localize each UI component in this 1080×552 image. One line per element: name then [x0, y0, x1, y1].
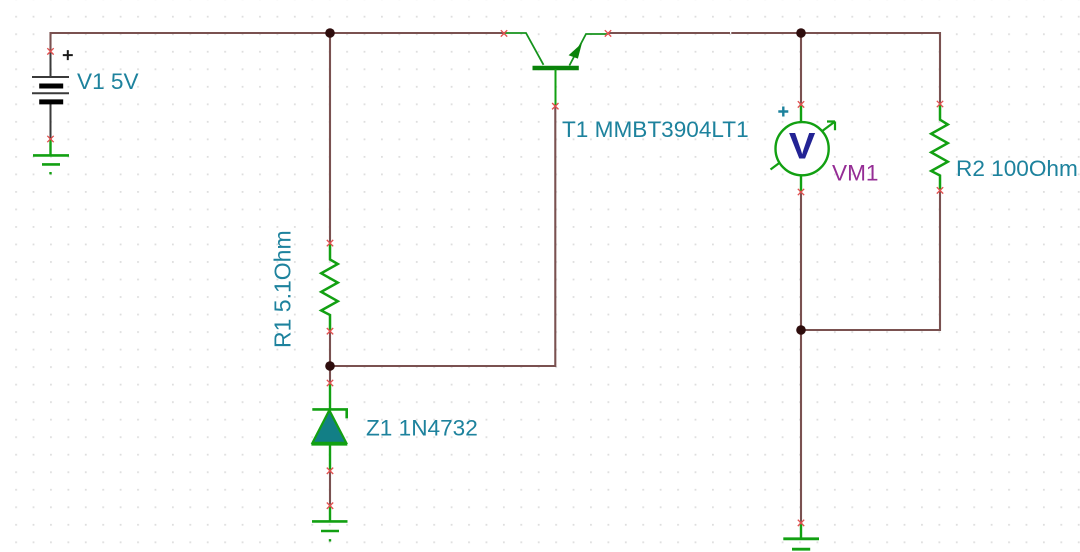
junction node on rail at R1 tap: [325, 28, 335, 38]
pin marker ground pin below Z1: [327, 503, 333, 509]
wire: transistor base down and left to R1/Z1 junction: [330, 106, 555, 366]
svg-text:VM1: VM1: [832, 161, 878, 186]
svg-text:V: V: [789, 126, 816, 167]
pin marker Z1 anode: [327, 468, 333, 474]
junction node on rail at voltmeter tap: [796, 28, 806, 38]
battery V1: [32, 51, 69, 139]
wire: rail tap down to R1: [329, 33, 331, 243]
junction node R1/Z1/base: [325, 361, 335, 371]
pin marker R2 bottom: [937, 187, 943, 193]
pin marker R1 bottom: [327, 328, 333, 334]
battery plus sign: [63, 50, 73, 60]
wire: rail junction down to voltmeter: [800, 33, 802, 104]
pin marker VM1 top: [798, 101, 804, 107]
zener diode Z1: [311, 383, 347, 470]
voltmeter VM1: [771, 104, 836, 192]
svg-text:T1 MMBT3904LT1: T1 MMBT3904LT1: [562, 117, 749, 142]
ground under battery: [33, 139, 69, 174]
transistor T1: [504, 33, 608, 106]
voltmeter plus sign: [778, 107, 788, 117]
pin marker Z1 cathode: [327, 380, 333, 386]
svg-text:V1 5V: V1 5V: [77, 69, 139, 94]
svg-text:R1 5.1Ohm: R1 5.1Ohm: [270, 230, 296, 348]
pin marker ground pin below VM1: [798, 520, 804, 526]
wire: lower junction down to ground: [800, 330, 802, 523]
wire: R1 bottom to junction to Z1 top: [329, 331, 331, 383]
wire: Z1 anode to ground pin: [329, 470, 331, 505]
resistor R1: [321, 244, 338, 331]
pin marker T1 emitter: [605, 30, 611, 36]
ground under voltmeter: [783, 523, 819, 550]
pin marker VM1 bottom: [798, 189, 804, 195]
wire: lower junction right and up to R2 bottom: [801, 190, 940, 330]
wire: battery top to transistor collector rail: [51, 33, 505, 51]
pin marker T1 base: [552, 103, 558, 109]
wire: voltmeter bottom down to lower junction: [800, 192, 802, 330]
resistor R2: [931, 104, 948, 190]
pin marker R1 top: [327, 240, 333, 246]
ground under Z1: [312, 505, 348, 540]
pin marker V1 negative terminal: [47, 136, 53, 142]
svg-text:Z1 1N4732: Z1 1N4732: [366, 415, 478, 440]
junction node voltmeter/R2/ground: [796, 325, 806, 335]
pin marker V1 positive terminal: [47, 48, 53, 54]
pin marker T1 collector: [501, 30, 507, 36]
wire: transistor emitter rail to R2 top: [608, 33, 940, 104]
svg-text:R2 100Ohm: R2 100Ohm: [956, 156, 1078, 181]
pin marker R2 top: [937, 101, 943, 107]
